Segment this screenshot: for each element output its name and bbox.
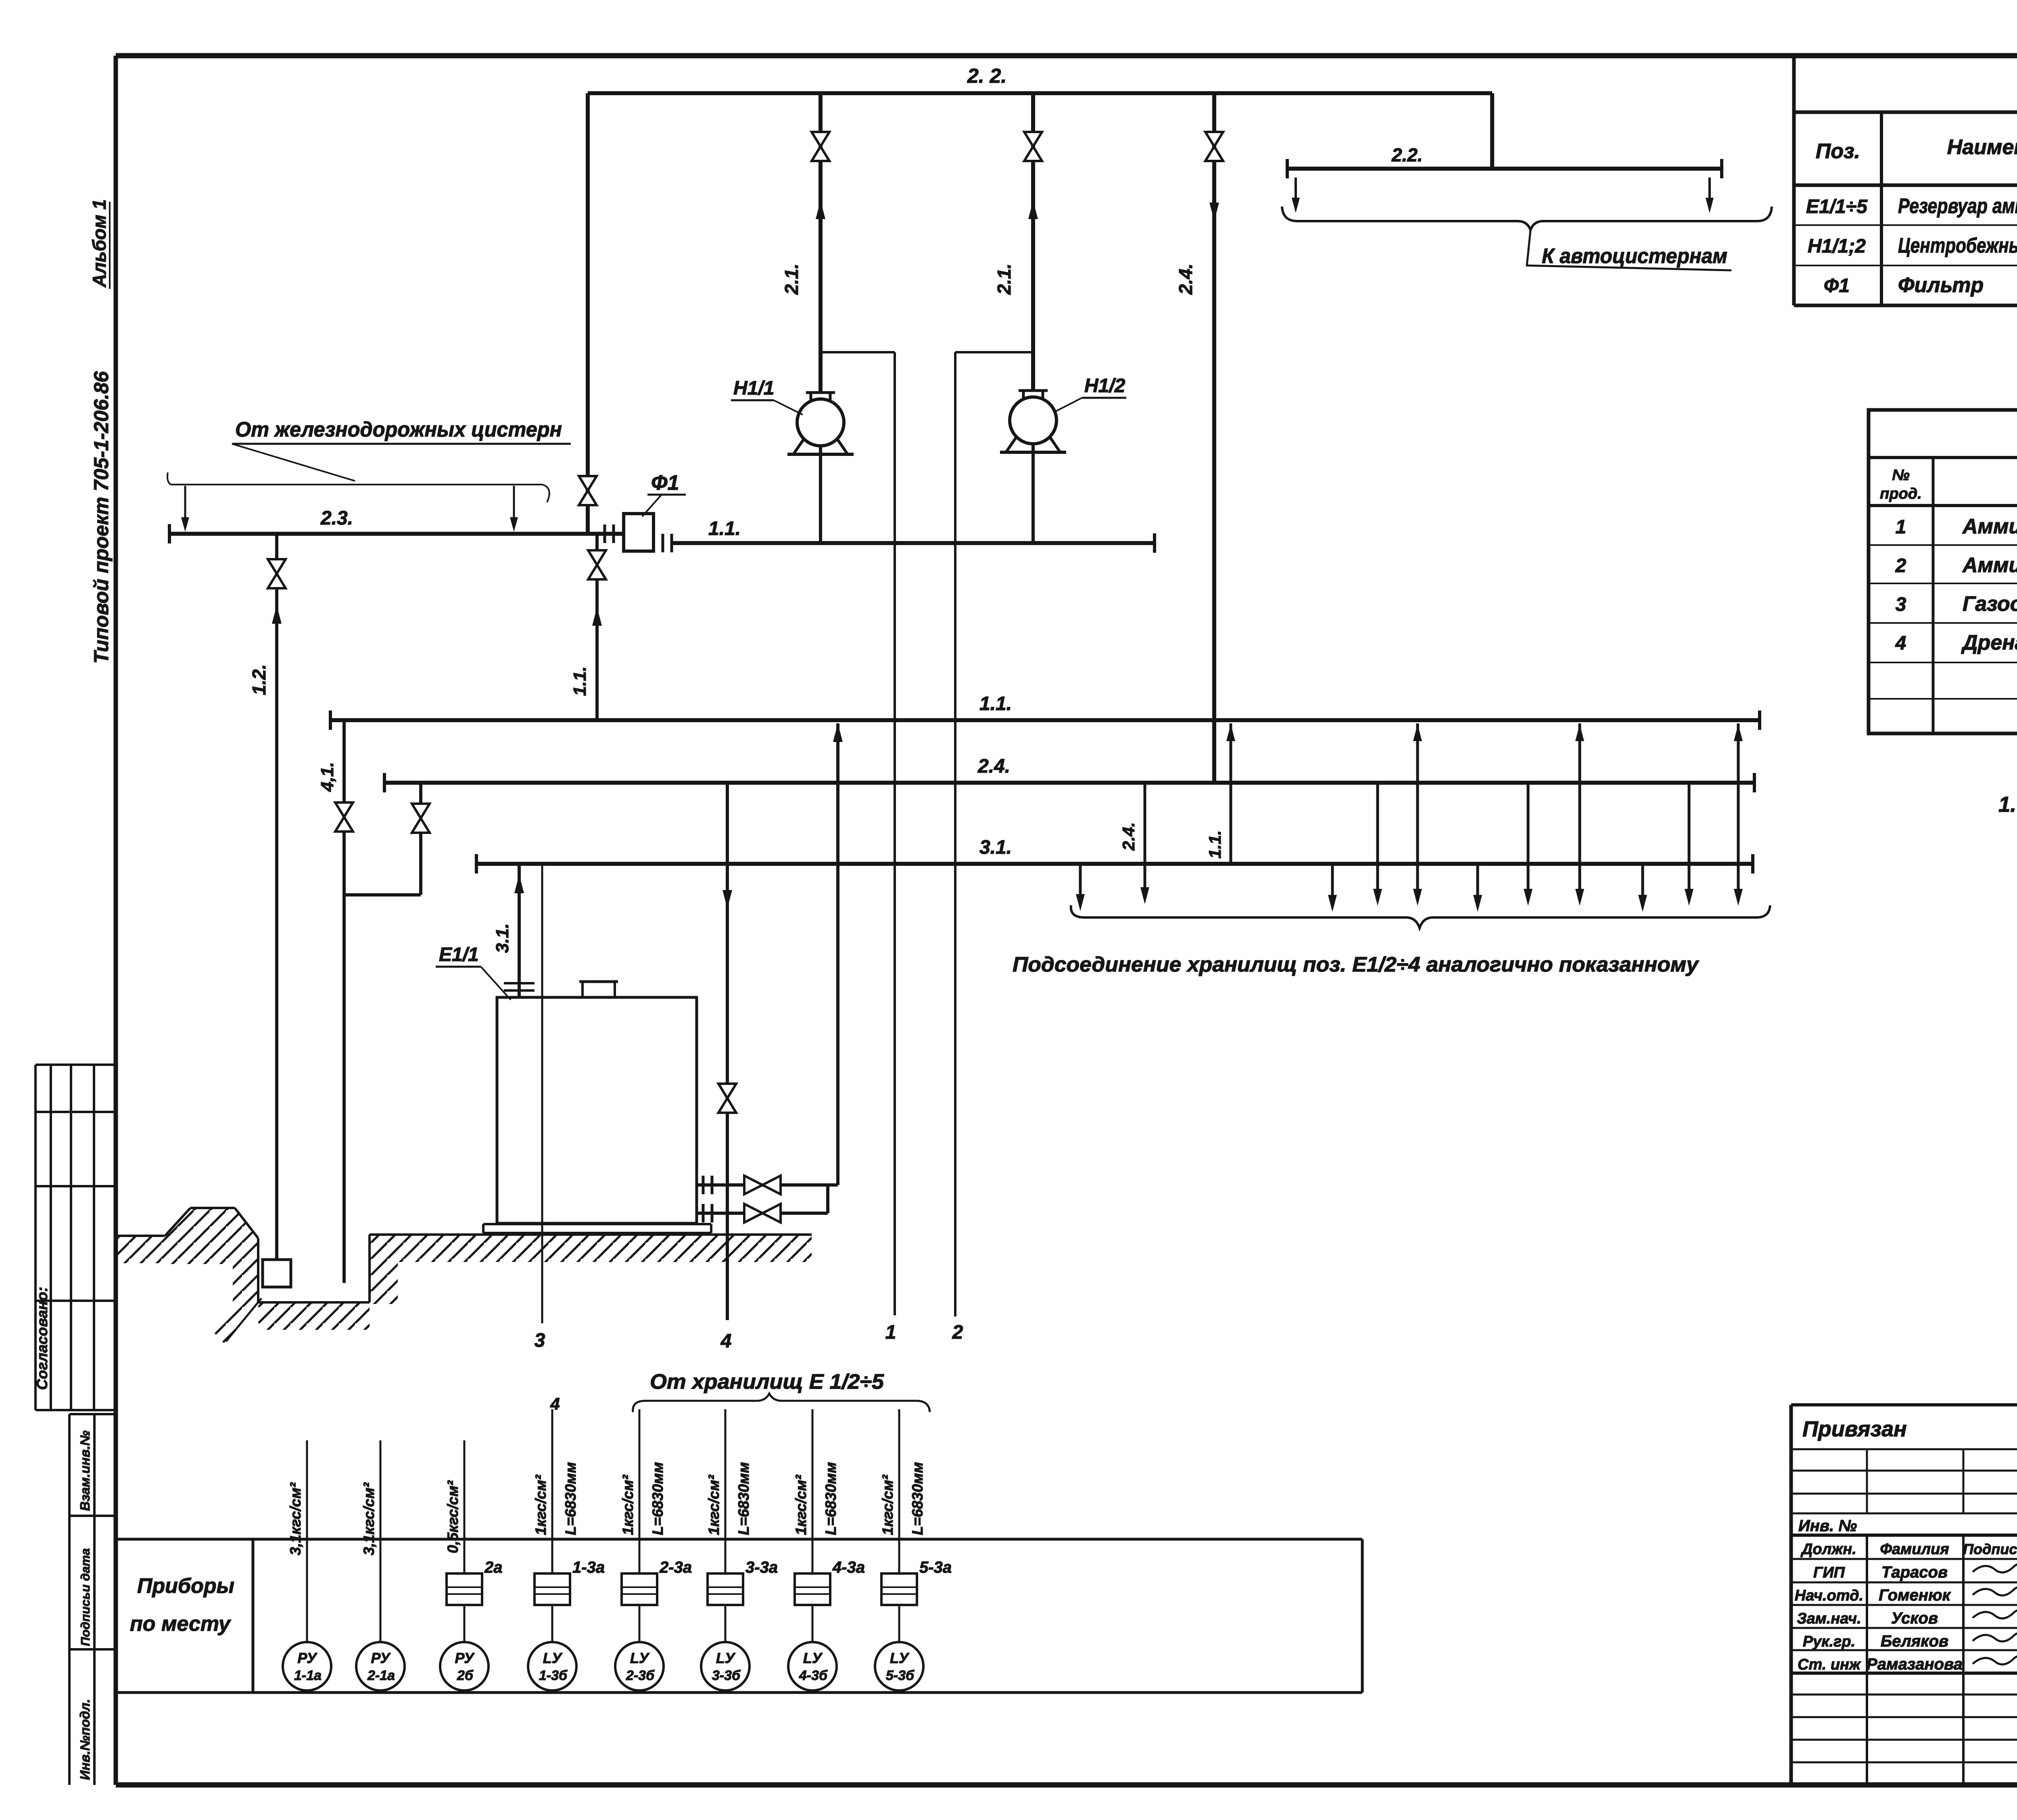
svg-text:прод.: прод. (1880, 485, 1922, 502)
svg-text:Подпись: Подпись (1963, 1541, 2017, 1557)
svg-text:От железнодорожных цистерн: От железнодорожных цистерн (235, 418, 562, 441)
svg-text:Газообразный аммиак: Газообразный аммиак (1963, 592, 2017, 616)
svg-text:3.1.: 3.1. (979, 837, 1012, 858)
svg-text:3-3а: 3-3а (745, 1559, 778, 1576)
svg-text:Ст. инж: Ст. инж (1798, 1656, 1861, 1673)
svg-text:4-3а: 4-3а (832, 1559, 865, 1576)
svg-text:LУ: LУ (803, 1650, 823, 1666)
svg-text:Тарасов: Тарасов (1881, 1563, 1948, 1581)
svg-text:4-3б: 4-3б (799, 1668, 828, 1683)
svg-text:Приборы: Приборы (137, 1574, 234, 1598)
svg-text:1кгс/см²: 1кгс/см² (532, 1474, 549, 1535)
svg-text:Е1/1÷5: Е1/1÷5 (1806, 196, 1868, 217)
svg-text:Взам.инв.№: Взам.инв.№ (77, 1430, 92, 1511)
svg-text:2-1а: 2-1а (367, 1668, 395, 1683)
svg-text:Рамазанова: Рамазанова (1867, 1655, 1963, 1673)
svg-text:LУ: LУ (630, 1650, 650, 1666)
svg-text:Нач.отд.: Нач.отд. (1795, 1587, 1863, 1604)
svg-text:2.4.: 2.4. (977, 756, 1010, 777)
svg-text:2-3б: 2-3б (626, 1668, 655, 1683)
svg-text:2: 2 (952, 1322, 963, 1343)
svg-text:Типовой проект 705-1-206.86: Типовой проект 705-1-206.86 (90, 371, 113, 664)
svg-text:Аммиачная вода: Аммиачная вода (1962, 554, 2017, 577)
svg-text:Н1/1: Н1/1 (733, 378, 774, 399)
svg-text:Н1/2: Н1/2 (1084, 375, 1125, 397)
svg-text:L=6830мм: L=6830мм (909, 1462, 926, 1535)
svg-text:3,1кгс/см²: 3,1кгс/см² (361, 1482, 377, 1555)
svg-text:РУ: РУ (297, 1650, 317, 1666)
svg-text:Зам.нач.: Зам.нач. (1797, 1610, 1861, 1627)
svg-text:К автоцистернам: К автоцистернам (1542, 244, 1727, 268)
svg-text:1кгс/см²: 1кгс/см² (879, 1474, 896, 1535)
svg-text:Усков: Усков (1891, 1609, 1938, 1627)
svg-text:5-3б: 5-3б (886, 1668, 915, 1683)
svg-text:2.1.: 2.1. (781, 263, 802, 295)
svg-text:2-3а: 2-3а (659, 1559, 692, 1576)
svg-text:2.2.: 2.2. (1391, 144, 1423, 165)
svg-text:Должн.: Должн. (1800, 1541, 1856, 1558)
svg-text:1-3б: 1-3б (539, 1668, 568, 1683)
svg-text:Аммиачная вода: Аммиачная вода (1962, 515, 2017, 538)
svg-text:Наименование: Наименование (1947, 136, 2017, 159)
svg-text:3: 3 (1896, 594, 1906, 615)
svg-text:Дренаж: Дренаж (1961, 631, 2017, 654)
svg-text:2. 2.: 2. 2. (967, 65, 1006, 87)
svg-text:Рук.гр.: Рук.гр. (1803, 1633, 1855, 1650)
svg-text:Поз.: Поз. (1816, 140, 1860, 163)
svg-text:5-3а: 5-3а (919, 1559, 952, 1576)
svg-text:L=6830мм: L=6830мм (823, 1462, 839, 1535)
svg-text:3: 3 (535, 1330, 545, 1351)
svg-text:2б: 2б (457, 1668, 474, 1683)
svg-text:Подсоединение хранилищ поз.: Подсоединение хранилищ поз. Е1/2÷4 анало… (1013, 953, 1700, 976)
svg-text:Беляков: Беляков (1881, 1632, 1948, 1650)
svg-text:2.1.: 2.1. (994, 263, 1015, 295)
svg-text:№: № (1892, 467, 1910, 484)
svg-text:РУ: РУ (371, 1650, 391, 1666)
svg-text:Н1/1;2: Н1/1;2 (1808, 236, 1866, 257)
svg-text:Резервуар аммиачной воды: Резервуар аммиачной воды (1898, 194, 2017, 218)
svg-text:LУ: LУ (890, 1650, 910, 1666)
svg-text:Ф1: Ф1 (651, 471, 679, 495)
svg-text:LУ: LУ (716, 1650, 736, 1666)
svg-text:3.1.: 3.1. (493, 924, 512, 953)
svg-text:Инв. №: Инв. № (1798, 1517, 1857, 1535)
svg-text:1-1а: 1-1а (294, 1668, 322, 1683)
svg-text:L=6830мм: L=6830мм (649, 1462, 666, 1535)
svg-text:1.1.: 1.1. (1205, 830, 1224, 859)
svg-text:1.1.: 1.1. (570, 667, 590, 696)
svg-text:Фильтр: Фильтр (1898, 274, 1984, 297)
svg-text:4,1.: 4,1. (317, 762, 337, 792)
svg-text:Привязан: Привязан (1802, 1417, 1907, 1441)
svg-text:1: 1 (1896, 516, 1906, 538)
svg-text:Фамилия: Фамилия (1880, 1541, 1949, 1558)
svg-text:4: 4 (720, 1331, 732, 1352)
svg-text:Согласовано:: Согласовано: (34, 1287, 50, 1390)
svg-text:Гоменюк: Гоменюк (1879, 1586, 1951, 1604)
svg-text:L=6830мм: L=6830мм (735, 1462, 752, 1535)
svg-text:Альбом 1: Альбом 1 (89, 199, 110, 288)
svg-text:0,5кгс/см²: 0,5кгс/см² (445, 1480, 461, 1553)
svg-text:Ф1: Ф1 (1824, 275, 1850, 297)
svg-text:L=6830мм: L=6830мм (562, 1462, 579, 1535)
svg-text:1: 1 (885, 1322, 896, 1343)
svg-text:4: 4 (550, 1394, 560, 1413)
svg-text:1.2.: 1.2. (248, 664, 269, 695)
svg-text:2.4.: 2.4. (1119, 822, 1138, 851)
svg-text:Инв.№подл.: Инв.№подл. (77, 1699, 92, 1780)
svg-text:2.3.: 2.3. (320, 508, 353, 529)
svg-text:Е1/1: Е1/1 (439, 944, 479, 965)
svg-text:Подписьи дата: Подписьи дата (78, 1548, 92, 1646)
svg-text:1кгс/см²: 1кгс/см² (620, 1474, 636, 1535)
svg-text:2.4.: 2.4. (1175, 263, 1196, 295)
svg-text:РУ: РУ (455, 1650, 475, 1666)
svg-text:3,1кгс/см²: 3,1кгс/см² (287, 1482, 304, 1555)
svg-text:2: 2 (1895, 555, 1906, 577)
svg-text:1. Содержание альбома смотри л: 1. Содержание альбома смотри лист (1998, 792, 2017, 817)
svg-text:2а: 2а (484, 1559, 503, 1576)
svg-text:Центробежный насос: Центробежный насос (1898, 234, 2017, 257)
svg-text:От хранилищ Е 1/2÷5: От хранилищ Е 1/2÷5 (650, 1370, 884, 1394)
svg-text:1кгс/см²: 1кгс/см² (706, 1474, 722, 1535)
svg-text:4: 4 (1895, 633, 1906, 654)
svg-text:по месту: по месту (130, 1612, 232, 1636)
svg-text:1кгс/см²: 1кгс/см² (793, 1474, 809, 1535)
svg-text:LУ: LУ (543, 1650, 563, 1666)
svg-text:1.1.: 1.1. (979, 693, 1012, 715)
svg-text:1-3а: 1-3а (572, 1559, 605, 1576)
svg-text:1.1.: 1.1. (708, 518, 741, 539)
svg-text:3-3б: 3-3б (712, 1668, 741, 1683)
svg-text:ГИП: ГИП (1813, 1564, 1845, 1581)
